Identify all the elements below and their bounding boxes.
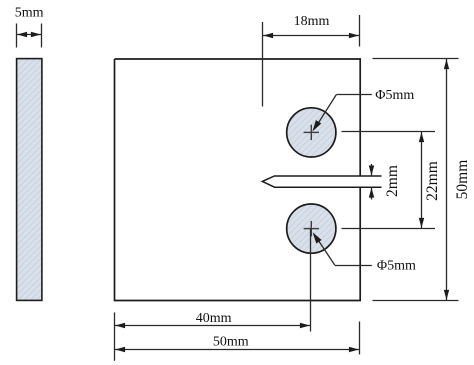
svg-text:Φ5mm: Φ5mm [377, 259, 416, 274]
svg-text:18mm: 18mm [294, 14, 330, 29]
svg-text:40mm: 40mm [196, 311, 232, 326]
svg-text:50mm: 50mm [213, 335, 249, 350]
svg-text:2mm: 2mm [384, 165, 401, 197]
svg-text:22mm: 22mm [424, 161, 441, 201]
svg-text:5mm: 5mm [15, 6, 44, 21]
svg-text:50mm: 50mm [454, 160, 471, 200]
svg-text:Φ5mm: Φ5mm [375, 88, 414, 103]
